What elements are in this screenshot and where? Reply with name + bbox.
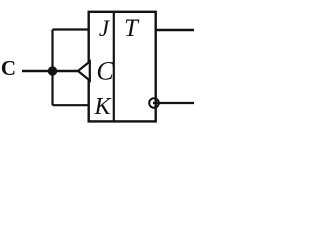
flip-flop U1 body bbox=[89, 12, 156, 122]
svg-text:K: K bbox=[93, 94, 112, 120]
svg-text:T: T bbox=[124, 15, 140, 42]
svg-text:C: C bbox=[1, 56, 16, 80]
section divider bbox=[113, 12, 115, 122]
wire J-K tie branch bbox=[51, 30, 53, 106]
wire Q-bar output bbox=[153, 102, 194, 104]
junction node bbox=[48, 66, 57, 75]
wire Q output bbox=[156, 29, 194, 31]
wire C input bbox=[22, 70, 78, 72]
inversion bubble bbox=[149, 98, 159, 108]
wire J input bbox=[53, 28, 90, 30]
svg-text:C: C bbox=[96, 57, 114, 86]
svg-text:J: J bbox=[99, 16, 111, 41]
wire K input bbox=[53, 104, 90, 106]
clock edge-trigger triangle bbox=[78, 62, 90, 81]
